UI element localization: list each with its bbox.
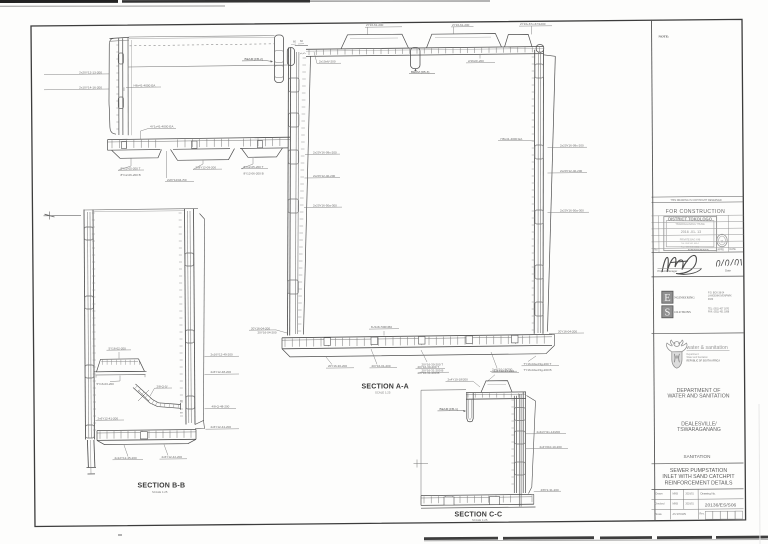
C-C slab ticks [423,496,425,503]
svg-text:2x20Y16-09x-200: 2x20Y16-09x-200 [560,144,584,148]
section B-B bottom slab [97,430,196,431]
for construction rule [652,201,744,204]
project manager signature [662,255,696,273]
svg-text:2x20Y12-40-200: 2x20Y12-40-200 [313,174,336,178]
project block rule [652,462,744,465]
svg-text:20Y16-04-200: 20Y16-04-200 [558,329,577,333]
title table columns [669,489,671,519]
section C-C right wall [513,396,515,493]
main chamber left wall [288,48,289,336]
right wall ticks [532,56,535,58]
floor rebar ticks [111,140,113,148]
svg-text:5Y16-02-200: 5Y16-02-200 [109,346,127,350]
svg-text:PRIVATE BAG X46: PRIVATE BAG X46 [680,239,701,242]
svg-text:Checked: Checked [655,503,665,506]
left wall ticks [303,57,307,59]
svg-text:SCALE 1:25: SCALE 1:25 [375,391,391,395]
svg-text:TEL: (051) 407 1870: TEL: (051) 407 1870 [708,308,730,310]
engineering solutions bottom rule [652,332,744,335]
copyright line top rule [652,195,744,198]
section B-B left wall below slab [87,440,88,468]
beam FB-1 pocket [467,393,473,422]
svg-text:9330: 9330 [708,299,714,301]
svg-text:2016/01: 2016/01 [686,494,695,496]
bottom slab notches [324,338,331,346]
svg-text:DATE: DATE [730,248,737,251]
svg-text:2/8-Q-5/: 2/8-Q-5/ [157,384,168,388]
svg-text:8Y12-06-200 B: 8Y12-06-200 B [121,173,141,177]
svg-text:2x6Y12-41-200: 2x6Y12-41-200 [98,416,119,420]
svg-text:Drawing No.: Drawing No. [701,491,717,495]
svg-text:P.O. BOX 38 04: P.O. BOX 38 04 [708,292,725,294]
svg-text:REPUBLIC OF SOUTH AFRICA: REPUBLIC OF SOUTH AFRICA [687,359,721,362]
left wall top step line [295,44,308,46]
amendments table lines [652,214,744,217]
C-C slab notches [444,497,454,505]
svg-text:water & sanitation: water & sanitation [687,345,728,351]
svg-text:BEAM (FB-1): BEAM (FB-1) [440,407,458,411]
svg-text:2x20Y16-50a-300: 2x20Y16-50a-300 [560,209,584,213]
svg-text:2016/01: 2016/01 [686,504,695,506]
svg-text:2Y16-61-200: 2Y16-61-200 [366,23,384,27]
catchpit waterline dashed [130,44,275,46]
svg-text:20136/ES/S06: 20136/ES/S06 [705,502,737,508]
catchpit floor slab [108,137,291,139]
svg-text:Date: Date [725,268,731,272]
scan artifact top edge [0,0,118,3]
svg-text:SANITATION: SANITATION [684,454,711,459]
section B-B right wall outer face [200,214,205,220]
svg-text:BEAM (FB-3): BEAM (FB-3) [411,70,429,74]
right wall lap splices [535,64,543,78]
svg-text:FAX: (051) 401 1898: FAX: (051) 401 1898 [708,311,730,314]
floor pocket trapezoid 2 [171,149,235,161]
main chamber left wall inner face [304,57,311,335]
svg-text:20Y16-30-200: 20Y16-30-200 [328,364,347,368]
catchpit wall ticks [116,44,118,46]
svg-text:2x8Y12-09-200: 2x8Y12-09-200 [196,166,217,170]
section C-C top slab [466,391,526,394]
signature date handwritten [716,259,741,267]
svg-text:TSWARAGANANG THUNE: TSWARAGANANG THUNE [675,223,705,226]
svg-text:2x12Y12-45-200: 2x12Y12-45-200 [115,456,138,460]
svg-text:TY16-02a-03g-200 B: TY16-02a-03g-200 B [524,368,552,372]
section B-B chute [136,384,181,405]
B-B slab notch [141,432,148,439]
section B-B left wall [84,210,86,440]
svg-text:11: 11 [720,239,724,243]
svg-text:Rev.: Rev. [700,513,705,516]
svg-text:LANGENHOVENPARK: LANGENHOVENPARK [708,295,732,298]
svg-text:Water and Sanitation: Water and Sanitation [687,356,709,359]
svg-text:OLUTIONS: OLUTIONS [674,310,691,314]
svg-text:2x4/2Y/2x-14/200: 2x4/2Y/2x-14/200 [537,430,561,434]
svg-text:2x6Y10-14-200: 2x6Y10-14-200 [494,369,515,373]
svg-text:SEWER PUMPSTATION: SEWER PUMPSTATION [670,468,727,474]
svg-text:5Y16-03-200: 5Y16-03-200 [97,382,115,386]
svg-text:20Y16-31-200 B: 20Y16-31-200 B [418,371,440,375]
svg-text:AS SHOWN: AS SHOWN [673,513,687,516]
engineering solutions logo E box [662,291,673,303]
floor pocket trapezoid 1 [112,150,162,159]
floor pocket trapezoid 3 [242,148,283,157]
svg-text:2x10x6/-200: 2x10x6/-200 [319,60,336,64]
svg-text:2/16x6/-200: 2/16x6/-200 [468,59,484,63]
stamp circle mark [717,234,727,246]
bottom slab trapezoid underside [282,345,555,357]
section B-B top edge [84,209,198,210]
catchpit mid line [129,65,289,67]
beam FB-3 [411,48,421,69]
svg-text:H8x41-4000 EA: H8x41-4000 EA [501,137,524,141]
section B-B hopper [97,359,145,372]
svg-text:SCALE 1:25: SCALE 1:25 [472,518,488,522]
catchpit top edge line to beam [129,36,275,37]
svg-text:20Y16-04-200: 20Y16-04-200 [258,331,277,335]
top slab upstand 1 [341,34,409,49]
catchpit wall bar lines [118,38,120,135]
svg-text:2x4Y010-10-200: 2x4Y010-10-200 [540,445,563,449]
B-B slab trapezoid underside [97,439,196,444]
svg-text:TSWARAGANANG: TSWARAGANANG [677,427,721,433]
svg-text:MKB: MKB [673,493,679,496]
catchpit wall cap [110,37,130,38]
scan artifact right margin streak [759,404,760,544]
right wall outer face [544,55,556,57]
title table rules [652,488,744,491]
section A-A catchpit left wall outer formwork [109,38,116,134]
signature block bottom rule [652,275,744,278]
svg-text:2Y16-61-200: 2Y16-61-200 [452,23,470,27]
svg-text:4Y1x41-4000 EA: 4Y1x41-4000 EA [150,125,174,129]
top slab ticks [308,50,310,55]
svg-text:20Y16-01-200: 20Y16-01-200 [372,364,391,368]
svg-text:2x6Y12-42-200: 2x6Y12-42-200 [162,455,183,459]
svg-text:No.: No. [654,249,658,252]
svg-text:WATER AND SANITATION: WATER AND SANITATION [667,393,729,399]
svg-text:2x6Y12-44-200: 2x6Y12-44-200 [211,425,232,429]
svg-text:2x16Y12-49-200: 2x16Y12-49-200 [211,353,234,357]
svg-text:Scale: Scale [656,513,663,516]
C-C datum tick left [414,462,429,464]
section C-C outline box [421,389,466,392]
svg-text:8Y12-06-200 B: 8Y12-06-200 B [244,171,264,175]
section C-C right wall joints [515,408,526,421]
svg-text:SECTION A-A: SECTION A-A [362,383,409,390]
section B-B right wall [185,209,187,425]
svg-text:4/8-Q-48-200: 4/8-Q-48-200 [212,405,230,409]
chute X mark [138,390,149,401]
svg-text:2x20Y16-50a-300: 2x20Y16-50a-300 [313,204,337,208]
section C-C bottom slab [421,494,532,495]
section C-C upstand [481,381,512,393]
section C-C right wall outer face [527,396,536,402]
svg-text:FOR CONSTRUCTION: FOR CONSTRUCTION [666,209,725,215]
svg-text:Project Manager: Project Manager [658,269,678,273]
svg-text:2x20Y12-40-200: 2x20Y12-40-200 [560,169,583,173]
svg-text:2x4Y10-18/200: 2x4Y10-18/200 [448,378,469,382]
svg-text:NGINEERING: NGINEERING [674,296,695,300]
svg-text:S: S [664,308,670,319]
svg-text:DISTRICT TOKOLOGO: DISTRICT TOKOLOGO [668,216,713,221]
svg-text:H8x41-4000 EA: H8x41-4000 EA [134,83,157,87]
svg-text:APPD: APPD [718,248,725,251]
svg-text:8-/2x6/-500/450: 8-/2x6/-500/450 [371,325,392,329]
svg-text:REINFORCEMENT DETAILS: REINFORCEMENT DETAILS [665,481,733,487]
svg-text:2x20Y16-09x-200: 2x20Y16-09x-200 [313,151,337,155]
section A-A bottom slab [282,334,552,337]
svg-text:INLET WITH SAND CATCHPIT: INLET WITH SAND CATCHPIT [662,474,735,480]
chute end ticks [180,403,182,410]
main chamber top slab [306,47,544,50]
svg-text:2x6Y12-48-200: 2x6Y12-48-200 [211,370,232,374]
receipt stamp outer box [664,217,717,251]
signature underline and label [658,267,702,269]
catchpit wall laps [118,53,123,64]
svg-text:MKB: MKB [673,503,679,506]
svg-text:TY16-02a-03g-200 T: TY16-02a-03g-200 T [524,362,552,366]
title block column divider [652,20,656,520]
svg-text:20Y16-30-200 T: 20Y16-30-200 T [418,365,440,369]
svg-text:E: E [664,293,670,304]
bottom slab ticks [284,339,286,347]
top slab upstand 2 [427,34,502,48]
section B-B datum mark [44,214,82,216]
tie bumps [300,53,305,54]
left wall rebar top bend [287,48,294,66]
svg-text:NOTE:: NOTE: [659,35,670,39]
svg-text:THIS DRAWING IS COPYRIGHT RESE: THIS DRAWING IS COPYRIGHT RESERVED [670,199,722,202]
left wall lap splices [289,78,299,92]
engineering solutions logo S box [662,306,673,318]
svg-text:Fax: 053 541 0360: Fax: 053 541 0360 [681,247,700,249]
amendments table columns [658,216,660,253]
svg-text:SCALE 1:25: SCALE 1:25 [152,490,168,494]
main chamber right wall [533,50,536,334]
svg-text:Drawn: Drawn [656,493,664,496]
section B-B right wall foot [195,421,205,429]
svg-text:Department:: Department: [687,353,700,356]
scan artifact bottom smudge [424,537,498,540]
svg-text:2Y16+67x-67/1200: 2Y16+67x-67/1200 [520,22,546,26]
svg-text:BEAM (FB-2): BEAM (FB-2) [245,57,263,61]
coat of arms emblem [667,340,687,368]
right wall cap [536,45,544,53]
svg-text:SECTION B-B: SECTION B-B [138,483,186,490]
beam FB-2 [275,35,284,83]
svg-text:2x8Y12/04-/50: 2x8Y12/04-/50 [167,178,187,182]
svg-text:2016 -01- 13: 2016 -01- 13 [681,230,701,234]
rev boxes [705,511,713,519]
svg-text:Tel: 053 541 0014: Tel: 053 541 0014 [681,243,699,245]
B-B slab ticks [99,431,101,439]
top slab upstand 3 [505,34,533,47]
